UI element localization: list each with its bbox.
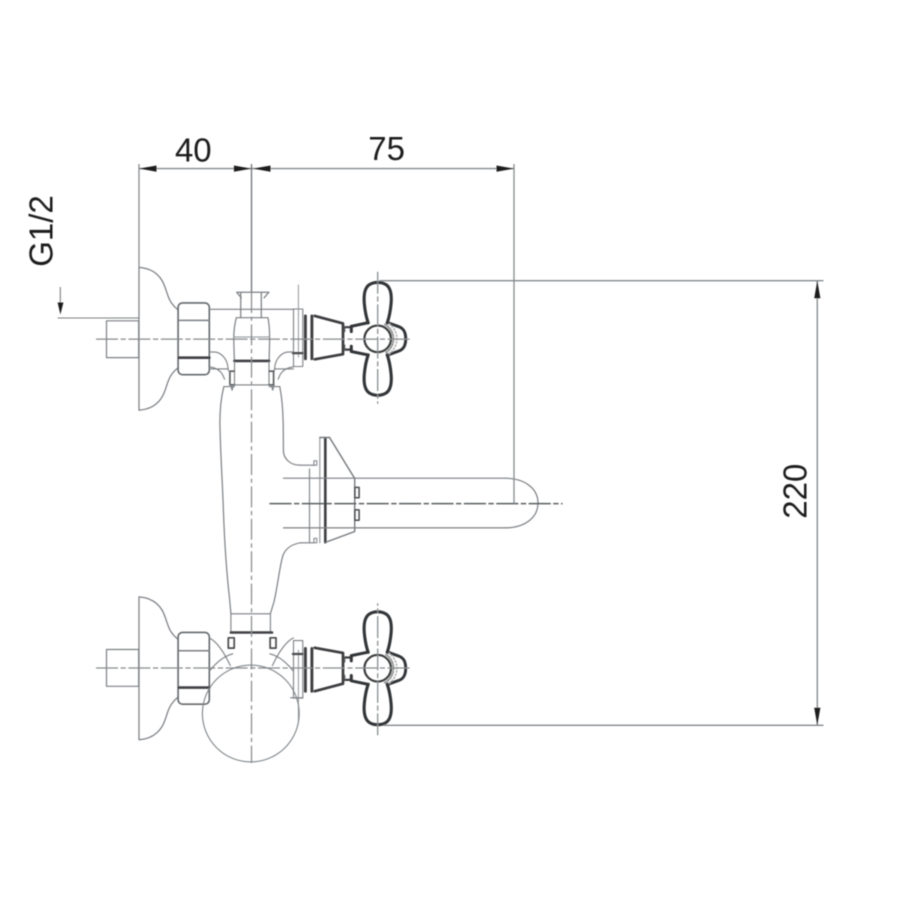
svg-text:75: 75 [368,130,405,167]
upper collar [235,362,270,385]
top port cap [237,292,269,317]
arrow 40 left [139,166,157,172]
lower collar [231,614,271,633]
spout base rings [355,487,359,497]
bottom valve assembly (mirrored) [97,597,412,740]
dim line 40/75 [139,168,514,170]
dim line 220 [816,281,818,725]
vase body right edge upper [280,387,301,465]
arrow 75 right [497,166,515,172]
flange ring tabs [314,461,317,465]
cylinder bottom segments (top assembly) [209,368,293,370]
svg-text:220: 220 [777,464,814,519]
nut facets top (light upper, dark lower) [179,319,209,321]
arrow 220 top [814,281,820,299]
shoulders [224,386,280,388]
nut facets bottom (light upper, dark lower) [179,650,209,652]
barrel facet line [234,336,270,338]
arrow 220 bottom [814,708,820,726]
spout flange roof and cone [320,438,355,543]
ext line left (wall) [138,164,140,267]
arrow G1/2 [58,303,64,315]
dimension graphics [58,164,824,763]
arrow 40 right [234,166,252,172]
spout centerline [270,503,562,505]
vase body right edge lower [270,543,300,614]
cylinder top line (top assembly) [209,308,293,310]
center axis chain [251,292,253,763]
vase body left edge [220,387,231,614]
ext line spout tip [513,164,515,503]
ledges [301,465,314,543]
top valve assembly [97,267,412,410]
bottom cylinder bottom segment [291,697,303,699]
spout end cap [506,478,538,528]
ext line center axis [251,164,253,292]
wing fillets top assembly [209,352,228,371]
ext line 220 top [380,280,824,282]
lower darts [228,638,234,648]
spout tube [284,478,507,528]
leader G1/2 [59,287,61,303]
lower collar bottom (dark) [231,631,272,634]
bottom wing fillets [209,638,230,666]
arrow 75 left [253,166,271,172]
svg-text:G1/2: G1/2 [23,195,60,267]
upper ears [230,371,234,385]
valve body barrel [234,318,270,361]
svg-text:40: 40 [175,132,212,169]
barrel bottom (dark) [234,360,269,363]
ext line 220 bottom [384,724,824,726]
spout flange verticals [309,469,311,543]
sphere (body bottom) [202,665,299,762]
